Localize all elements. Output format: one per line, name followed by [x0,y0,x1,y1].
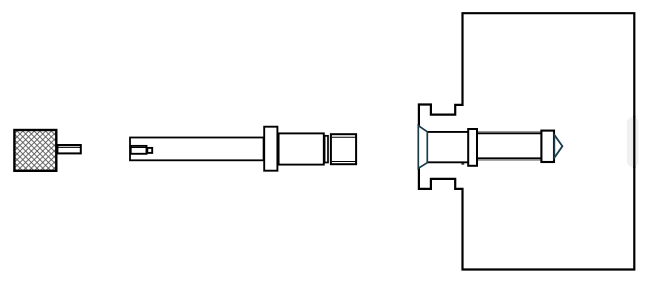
plug end cap [331,134,356,164]
panel block with flange outline [419,13,634,269]
scrollbar thumb overlapping block edge [627,117,639,167]
screw shaft top line [477,132,541,134]
plug end cap chamfer line top [332,136,356,138]
plug flange [264,127,277,171]
screw cone tip [554,135,562,158]
screw collar [468,129,477,166]
screw first cylinder top line [427,131,468,133]
plug center contact inner line [131,147,147,149]
screw shaft thread outer top (gray) [477,131,541,133]
block edge remnant mark [461,163,464,165]
screw first cylinder fill [427,133,468,162]
plug center contact tip [147,148,152,153]
plug mid cylinder [279,133,324,164]
screw shaft bottom line [477,157,541,159]
plug center contact [131,146,147,154]
screw first cylinder bottom line [427,161,468,163]
knurled knob K1 [14,130,56,171]
plug end cap chamfer line bottom [332,161,356,163]
knob pin [57,145,80,153]
knob pin inner line [57,146,80,148]
screw flare head [418,126,427,169]
plug tube body [130,138,264,161]
screw shaft thread outer bottom (gray) [477,159,541,161]
plug neck [325,136,328,163]
screw shaft fill [477,133,541,158]
screw nut cap [541,131,554,162]
block right edge over thumb [633,116,635,168]
